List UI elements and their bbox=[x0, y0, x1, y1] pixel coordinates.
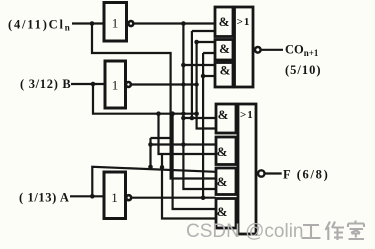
svg-text:(5/10): (5/10) bbox=[285, 63, 322, 77]
svg-text:F (6/8): F (6/8) bbox=[283, 168, 330, 182]
svg-text:&: & bbox=[219, 41, 230, 56]
svg-text:( 3/12) B: ( 3/12) B bbox=[20, 77, 71, 91]
svg-text:&: & bbox=[217, 144, 228, 159]
svg-text:1: 1 bbox=[112, 16, 119, 31]
svg-text:&: & bbox=[217, 174, 228, 189]
svg-text:>1: >1 bbox=[240, 109, 254, 121]
svg-text:&: & bbox=[218, 107, 229, 122]
svg-text:&: & bbox=[219, 14, 230, 29]
svg-text:CSDN @colin: CSDN @colin bbox=[186, 221, 303, 242]
svg-text:1: 1 bbox=[111, 190, 118, 205]
svg-text:( 1/13) A: ( 1/13) A bbox=[19, 191, 70, 205]
svg-text:(4/11)Cln: (4/11)Cln bbox=[8, 18, 70, 33]
svg-text:>1: >1 bbox=[237, 16, 251, 28]
svg-text:1: 1 bbox=[112, 78, 119, 93]
svg-text:&: & bbox=[220, 63, 231, 78]
svg-text:&: & bbox=[217, 204, 228, 219]
